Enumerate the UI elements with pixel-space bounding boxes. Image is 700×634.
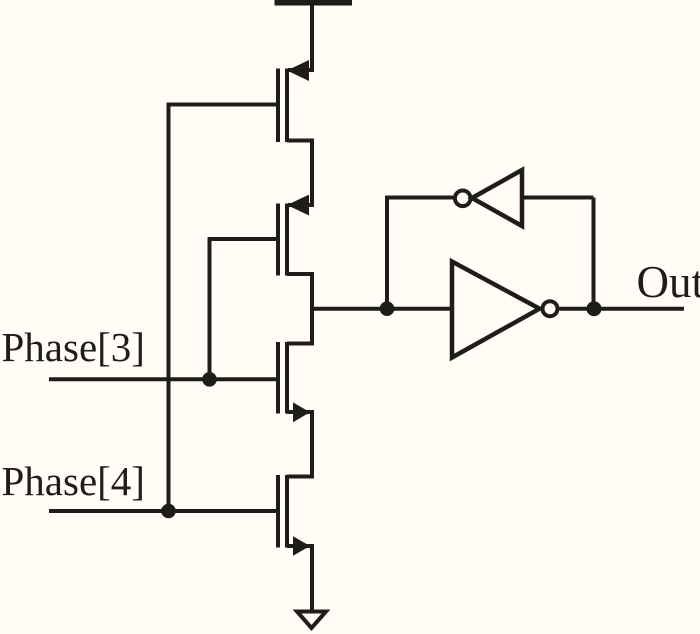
transistor Q2 (PMOS) bbox=[278, 195, 309, 276]
inverter U2 bubble bbox=[455, 191, 471, 207]
wire U1 output to Out bbox=[560, 307, 685, 311]
transistor Q1 (PMOS) bbox=[278, 60, 309, 142]
wire Q4 source to ground bbox=[287, 546, 312, 612]
ground bbox=[297, 612, 326, 629]
inverter U1 bubble bbox=[543, 301, 558, 316]
wire Q2 drain to Q3 drain (output node) bbox=[287, 274, 312, 344]
wire Q1 drain to Q2 source bbox=[287, 141, 312, 206]
wire VDD to Q1 source bbox=[288, 4, 312, 70]
junction on Phase[4] bbox=[161, 504, 176, 519]
wire Phase[3] input line bbox=[49, 377, 277, 381]
wire Phase[4] input line bbox=[49, 509, 277, 513]
inverter U1 (forward, points right) bbox=[452, 262, 540, 358]
wire U2 input to right rail bbox=[522, 196, 594, 200]
wire output node to inverter U1 input bbox=[312, 307, 452, 311]
junction on Phase[3] bbox=[202, 372, 217, 387]
inverter U2 (feedback, points left) bbox=[472, 170, 522, 226]
wire Q1 gate to Phase[4] net bbox=[169, 105, 277, 512]
wire right rail down to Out bbox=[592, 198, 596, 309]
transistor Q3 (NMOS) bbox=[278, 342, 310, 422]
junction at output node bbox=[380, 301, 395, 316]
wire feedback from node to inverter U2 output bbox=[387, 198, 453, 309]
power rail VDD bbox=[275, 0, 353, 6]
transistor Q4 (NMOS) bbox=[278, 475, 310, 556]
svg-text:Phase[4]: Phase[4] bbox=[2, 458, 145, 504]
junction at Out feedback tap bbox=[587, 301, 602, 316]
wire Q2 gate to Phase[3] net bbox=[210, 239, 277, 379]
svg-text:Phase[3]: Phase[3] bbox=[2, 324, 145, 370]
svg-text:Out: Out bbox=[637, 257, 700, 307]
wire Q3 source to Q4 drain bbox=[287, 412, 312, 477]
